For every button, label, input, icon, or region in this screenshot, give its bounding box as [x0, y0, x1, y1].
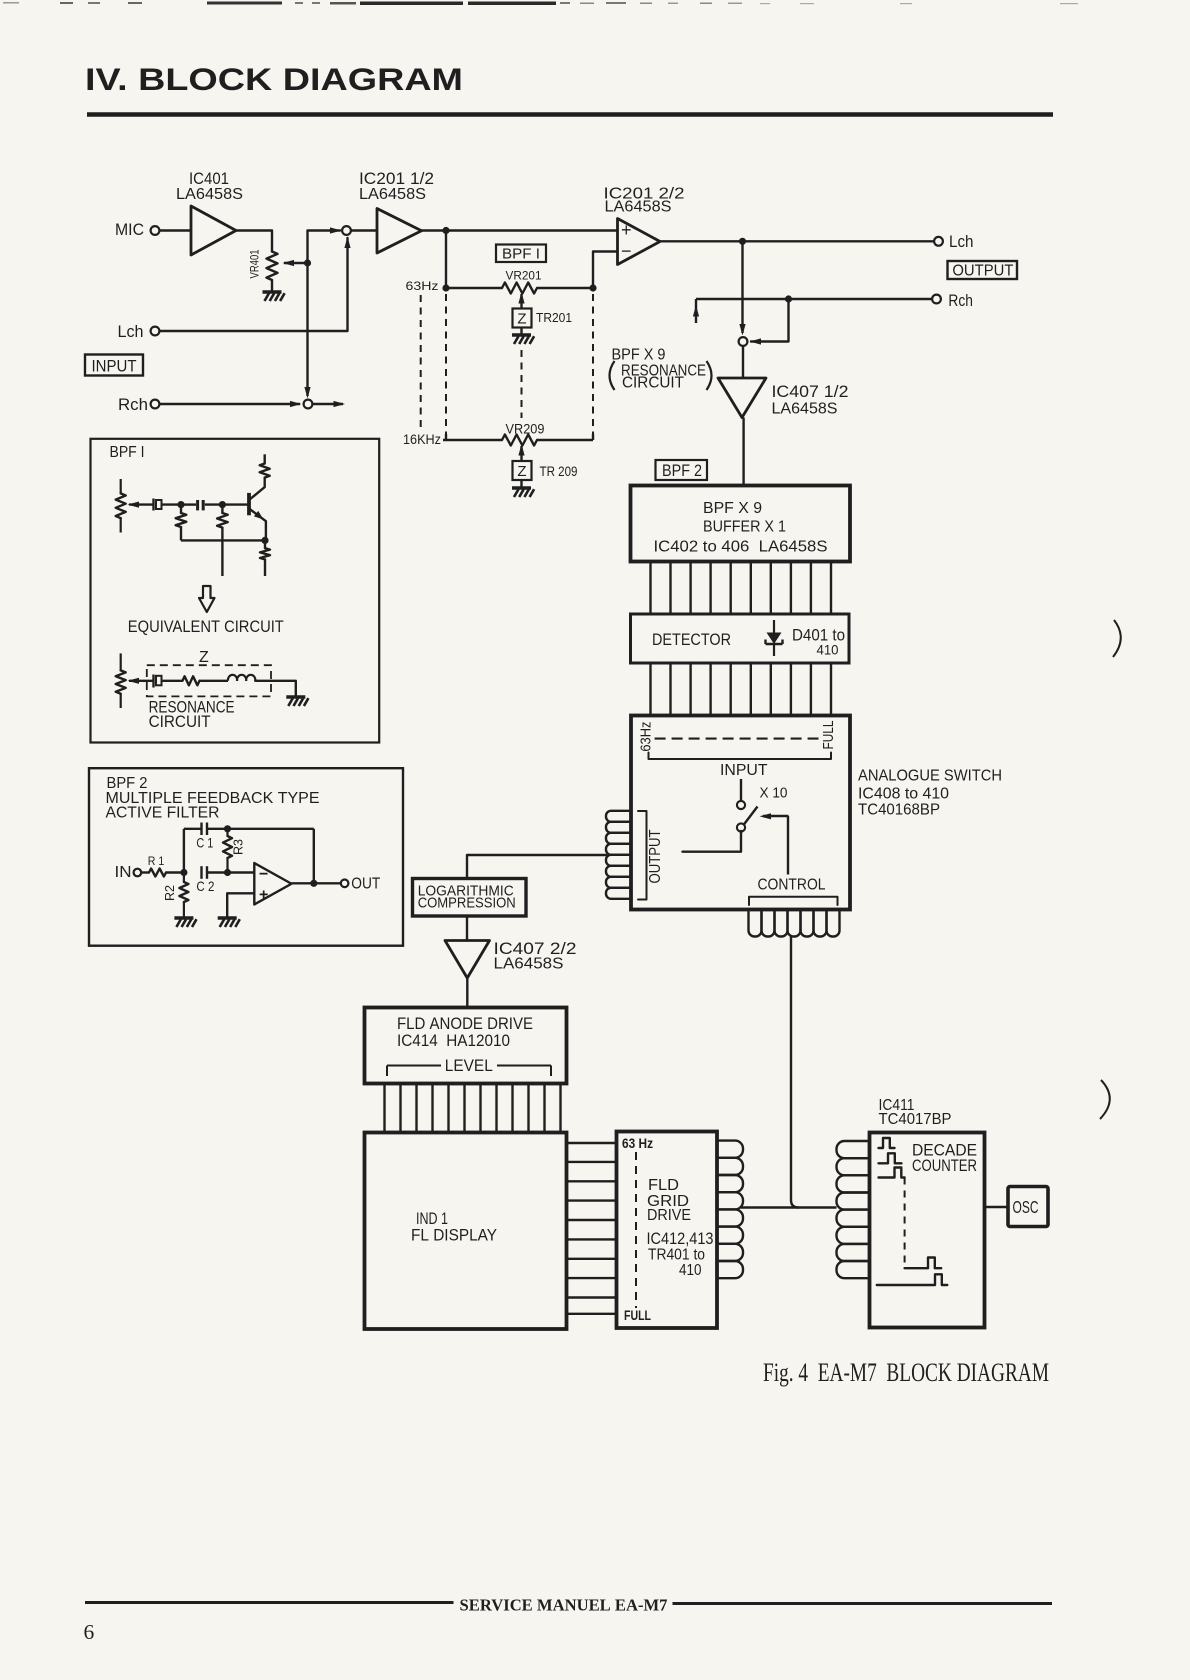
svg-text:−: − [259, 866, 268, 883]
wire R to L [200, 680, 229, 682]
wire VR401 wiper [284, 262, 308, 264]
svg-text:410: 410 [817, 642, 839, 658]
junction 63Hz right [589, 284, 596, 291]
resistor R3 [226, 829, 228, 836]
bracket output group [638, 811, 647, 900]
svg-text:BUFFER X 1: BUFFER X 1 [703, 519, 786, 536]
capacitor resonance [152, 675, 154, 688]
svg-text:LA6458S: LA6458S [176, 186, 243, 203]
svg-text:IV. BLOCK DIAGRAM: IV. BLOCK DIAGRAM [85, 61, 463, 97]
wire feedback to minus [593, 252, 618, 289]
bundle grid drive 8 loops [717, 1141, 743, 1158]
wire 63Hz row right [537, 287, 593, 289]
dashed input range [655, 738, 819, 740]
bracket input group [649, 753, 832, 760]
resistor emitter [264, 540, 266, 548]
contact bottom [737, 823, 745, 831]
svg-text:Z: Z [199, 649, 209, 666]
box OSC [1008, 1187, 1048, 1227]
svg-text:TR201: TR201 [536, 311, 572, 325]
junction BPF tap [442, 227, 449, 234]
wire Rch output line [696, 298, 932, 300]
svg-text:VR401: VR401 [250, 250, 262, 279]
svg-text:Rch: Rch [948, 292, 973, 310]
dashed box Z [147, 665, 271, 696]
node mix L [342, 226, 351, 235]
junction Lch tap [739, 238, 746, 245]
wire Lch to riser [160, 238, 348, 331]
paren right [707, 361, 712, 390]
svg-text:COMPRESSION: COMPRESSION [418, 895, 516, 912]
svg-text:CIRCUIT: CIRCUIT [622, 375, 684, 392]
wire L to ground [255, 681, 295, 696]
scan artifact top strip [3, 2, 1078, 6]
capacitor C1 [200, 823, 202, 836]
svg-text:R3: R3 [230, 839, 245, 855]
svg-text:IN: IN [115, 864, 132, 881]
potentiometer VR401 [267, 252, 278, 281]
box DETECTOR [631, 614, 850, 663]
svg-text:INPUT: INPUT [92, 357, 137, 376]
svg-text:CIRCUIT: CIRCUIT [149, 712, 211, 731]
svg-text:FL DISPLAY: FL DISPLAY [411, 1226, 497, 1245]
bracket control [749, 897, 838, 905]
junction R3 top [224, 825, 231, 832]
wire Z to ground [520, 480, 522, 487]
op-amp U1 [254, 863, 291, 905]
switch lever [744, 807, 758, 826]
wire node B to base [222, 503, 247, 505]
wire log to IC407 2/2 [466, 916, 468, 941]
svg-text:63Hz: 63Hz [638, 722, 654, 752]
svg-text:6: 6 [84, 1620, 95, 1644]
wire decade to OSC [985, 1206, 1009, 1208]
paren left [610, 361, 615, 390]
footer rule left [85, 1601, 454, 1604]
dashed grid range [635, 1152, 637, 1308]
svg-text:OUTPUT: OUTPUT [952, 263, 1013, 280]
svg-text:C 1: C 1 [196, 835, 213, 851]
box LOGARITHMIC COMPRESSION [413, 879, 527, 917]
box DECADE COUNTER [870, 1133, 985, 1328]
ground [512, 486, 531, 489]
svg-text:TC4017BP: TC4017BP [879, 1111, 952, 1128]
svg-text:SERVICE MANUEL EA-M7: SERVICE MANUEL EA-M7 [460, 1596, 668, 1615]
bundle control 7 loops [749, 910, 762, 937]
svg-text:DETECTOR: DETECTOR [652, 630, 731, 649]
node mix R [304, 400, 313, 409]
svg-text:R2: R2 [162, 885, 177, 901]
box ANALOGUE SWITCH [631, 716, 850, 910]
wire 16KHz row right [537, 439, 593, 441]
wire Lch tap down [741, 241, 743, 333]
svg-text:Z: Z [517, 311, 526, 328]
impedance Z TR201 [513, 309, 532, 328]
wire VR201 wiper arrow [520, 294, 522, 309]
wire switch output [683, 831, 742, 852]
dashed repeat mid [521, 350, 523, 418]
wire control trunk [791, 937, 799, 1208]
svg-text:VR201: VR201 [506, 269, 542, 283]
svg-text:COUNTER: COUNTER [912, 1157, 977, 1175]
svg-text:ACTIVE FILTER: ACTIVE FILTER [106, 805, 220, 822]
transistor Q base bar [247, 493, 251, 515]
svg-text:LA6458S: LA6458S [772, 401, 838, 418]
potentiometer VR201 [502, 283, 537, 294]
resistor R1 [149, 869, 166, 877]
svg-text:ANALOGUE SWITCH: ANALOGUE SWITCH [858, 768, 1002, 785]
ground [512, 333, 531, 336]
wire Rch tap down [751, 299, 789, 342]
wire feedback [313, 829, 315, 884]
ground [263, 290, 282, 293]
potentiometer VR209 [502, 435, 537, 446]
dashed repeat mid-left [445, 294, 447, 434]
wire Rch to riser [313, 403, 344, 405]
svg-text:BPF I: BPF I [110, 444, 145, 461]
pulse symbol 2 [879, 1153, 902, 1163]
wire IC201 out bus [422, 229, 618, 231]
svg-text:C 2: C 2 [196, 878, 214, 894]
wire wiper arrow [129, 503, 153, 505]
svg-text:LEVEL: LEVEL [445, 1056, 493, 1075]
op-amp IC201 1/2 [377, 209, 422, 254]
box IND1 FL DISPLAY [365, 1133, 567, 1330]
title rule [87, 112, 1053, 117]
wire caps to node B [205, 503, 223, 505]
svg-text:63 Hz: 63 Hz [622, 1135, 653, 1151]
transistor Q collector [249, 478, 265, 500]
svg-text:16KHz: 16KHz [403, 431, 441, 447]
svg-text:IC402 to 406 LA6458S: IC402 to 406 LA6458S [654, 539, 828, 556]
resistor R2 [183, 873, 185, 883]
wire output [292, 882, 342, 884]
terminal OUT [341, 880, 349, 888]
box INPUT label [85, 355, 143, 376]
svg-text:+: + [621, 220, 632, 240]
svg-text:Lch: Lch [949, 233, 974, 251]
contact top [737, 801, 745, 809]
pulse symbol 5 [877, 1274, 948, 1285]
junction input node [180, 869, 187, 876]
dashed pulse link [904, 1178, 906, 1269]
junction output node [310, 880, 317, 887]
wire VR401 to ground [271, 280, 273, 291]
svg-text:FULL: FULL [624, 1307, 651, 1323]
wire tap down [445, 231, 447, 289]
impedance Z TR209 [513, 461, 532, 480]
svg-text:X 10: X 10 [760, 786, 788, 802]
wire wiper arrow [129, 680, 154, 682]
ground [286, 695, 305, 698]
wire cap to node [162, 503, 182, 505]
wire IC401 out [236, 231, 272, 252]
wire control arrow [763, 815, 789, 817]
footer rule right [673, 1602, 1053, 1605]
pulse symbol 1 [879, 1138, 895, 1148]
svg-text:Lch: Lch [118, 322, 144, 341]
box BPF2 inset [89, 768, 403, 946]
dashed repeat right [592, 294, 594, 434]
svg-text:MIC: MIC [115, 220, 144, 239]
wire Rch input [160, 403, 301, 405]
svg-text:Fig. 4 EA-M7 BLOCK DIAGRAM: Fig. 4 EA-M7 BLOCK DIAGRAM [763, 1358, 1049, 1387]
inductor resonance [228, 675, 255, 681]
svg-text:Z: Z [517, 463, 526, 480]
terminal Rch out [932, 295, 941, 304]
box FLD ANODE DRIVE [365, 1008, 567, 1084]
box BPF 1 label [496, 245, 546, 263]
wire IC407 2/2 to anode drive [466, 978, 468, 1008]
terminal Rch input [151, 400, 160, 409]
wire minus rail [207, 871, 254, 873]
wires anode to display 12 pins [385, 1084, 561, 1133]
wire 16KHz left corner [445, 434, 447, 440]
pulse symbol 4 [905, 1258, 942, 1269]
resistor node B [221, 505, 223, 513]
wire wiper riser up [308, 231, 341, 264]
wire control drop [787, 816, 789, 875]
wire MIC to IC401 [160, 229, 192, 231]
wires display to grid drive 10 lines [567, 1143, 617, 1314]
junction Rch tap [785, 295, 792, 302]
svg-text:LA6458S: LA6458S [605, 199, 672, 216]
svg-text:TR401 to: TR401 to [648, 1247, 705, 1264]
resistor resonance [183, 676, 200, 685]
junction emitter node [261, 537, 268, 544]
potentiometer resonance [120, 653, 122, 670]
wire IC407 to BPF box [742, 418, 744, 486]
dashed repeat left [420, 295, 422, 429]
svg-text:IC408 to 410: IC408 to 410 [858, 786, 949, 803]
svg-text:TC40168BP: TC40168BP [858, 802, 940, 819]
block arrow down [199, 586, 215, 612]
wire Lch output line [660, 240, 934, 242]
wire 63Hz row left [446, 287, 502, 289]
op-amp IC201 2/2 [618, 219, 661, 265]
ground [174, 916, 193, 919]
diode D401 [773, 620, 775, 633]
wire 16KHz right corner [592, 434, 594, 440]
junction wiper node [304, 259, 311, 266]
svg-text:OSC: OSC [1013, 1197, 1039, 1217]
op-amp IC407 1/2 [718, 378, 766, 418]
wires detector to switch 10 pins [651, 663, 832, 716]
svg-text:EQUIVALENT CIRCUIT: EQUIVALENT CIRCUIT [128, 617, 284, 636]
wire IN to R1 [141, 871, 149, 873]
svg-text:FLD: FLD [648, 1177, 679, 1194]
box FLD GRID DRIVE [617, 1132, 718, 1329]
terminal MIC [151, 226, 160, 235]
svg-text:OUTPUT: OUTPUT [647, 829, 664, 883]
bracket LEVEL [387, 1065, 441, 1067]
capacitor C2 [200, 866, 202, 879]
wire top rail left [184, 828, 202, 830]
resistor node A [180, 505, 182, 513]
wire Rch stub down [695, 299, 697, 323]
node resonance input [739, 337, 748, 346]
svg-text:LA6458S: LA6458S [359, 186, 426, 203]
svg-text:BPF X 9: BPF X 9 [703, 500, 762, 517]
wire plus input [227, 893, 254, 917]
svg-text:BPF I: BPF I [502, 246, 540, 263]
svg-text:R 1: R 1 [148, 854, 165, 868]
wire cap to R [162, 680, 183, 682]
junction node B [219, 501, 226, 508]
box OUTPUT label [948, 261, 1018, 279]
potentiometer inset top [120, 479, 122, 493]
wire output trunk [467, 855, 606, 878]
wire feedback rail [181, 539, 266, 541]
wire Z to ground [520, 328, 522, 335]
terminal Lch out [934, 237, 943, 246]
bundle decade 8 loops [837, 1141, 870, 1158]
wire VR209 wiper arrow [520, 446, 522, 461]
terminal IN [134, 869, 142, 877]
svg-text:TR 209: TR 209 [540, 464, 578, 479]
svg-text:+: + [259, 887, 268, 904]
box BPF 2 tag [656, 460, 708, 480]
op-amp IC407 2/2 [445, 941, 490, 979]
scan artifact right paren 2 [1100, 1080, 1110, 1119]
wire R1 to node [166, 871, 184, 873]
svg-text:IC414 HA12010: IC414 HA12010 [397, 1031, 510, 1050]
junction 63Hz left [442, 284, 449, 291]
svg-text:410: 410 [679, 1262, 702, 1279]
junction node A [177, 501, 184, 508]
svg-text:INPUT: INPUT [720, 762, 768, 779]
svg-text:BPF 2: BPF 2 [662, 462, 702, 480]
capacitor series pair [196, 500, 199, 510]
junction C2 R3 node [224, 869, 231, 876]
pulse symbol 3 [879, 1168, 905, 1178]
box BPF1 inset [91, 439, 380, 743]
svg-text:IC407 1/2: IC407 1/2 [772, 382, 849, 401]
wire node to IC407 1/2 [742, 346, 744, 378]
bundle output 8 loops [606, 811, 631, 822]
svg-text:OUT: OUT [351, 876, 380, 893]
terminal Lch input [151, 327, 160, 336]
svg-text:CONTROL: CONTROL [758, 877, 826, 894]
box BPF X9 buffer [631, 486, 851, 562]
scan artifact right paren 1 [1113, 620, 1121, 657]
wire 16KHz row left [443, 439, 502, 441]
svg-text:BPF X 9: BPF X 9 [612, 347, 666, 364]
svg-text:−: − [621, 241, 632, 261]
wires buffer to detector 10 pins [651, 562, 832, 615]
capacitor input [152, 499, 154, 511]
svg-text:LA6458S: LA6458S [494, 956, 564, 973]
svg-text:FULL: FULL [821, 721, 837, 750]
wire node A to caps [181, 503, 196, 505]
wire wiper drop to Rch [306, 263, 308, 396]
op-amp IC401 [191, 206, 236, 255]
svg-text:IC412,413: IC412,413 [647, 1229, 714, 1248]
transistor Q emitter [249, 509, 266, 541]
svg-text:Rch: Rch [118, 395, 148, 414]
svg-text:VR209: VR209 [506, 422, 545, 437]
wire top rail right [207, 828, 314, 830]
ground [218, 916, 237, 919]
svg-text:DRIVE: DRIVE [647, 1207, 691, 1224]
wire node to IC201 [351, 229, 377, 231]
wire node up [183, 829, 185, 873]
wire grid to decade [741, 1206, 837, 1208]
svg-text:63Hz: 63Hz [406, 279, 439, 293]
wire switch stub [740, 779, 742, 802]
